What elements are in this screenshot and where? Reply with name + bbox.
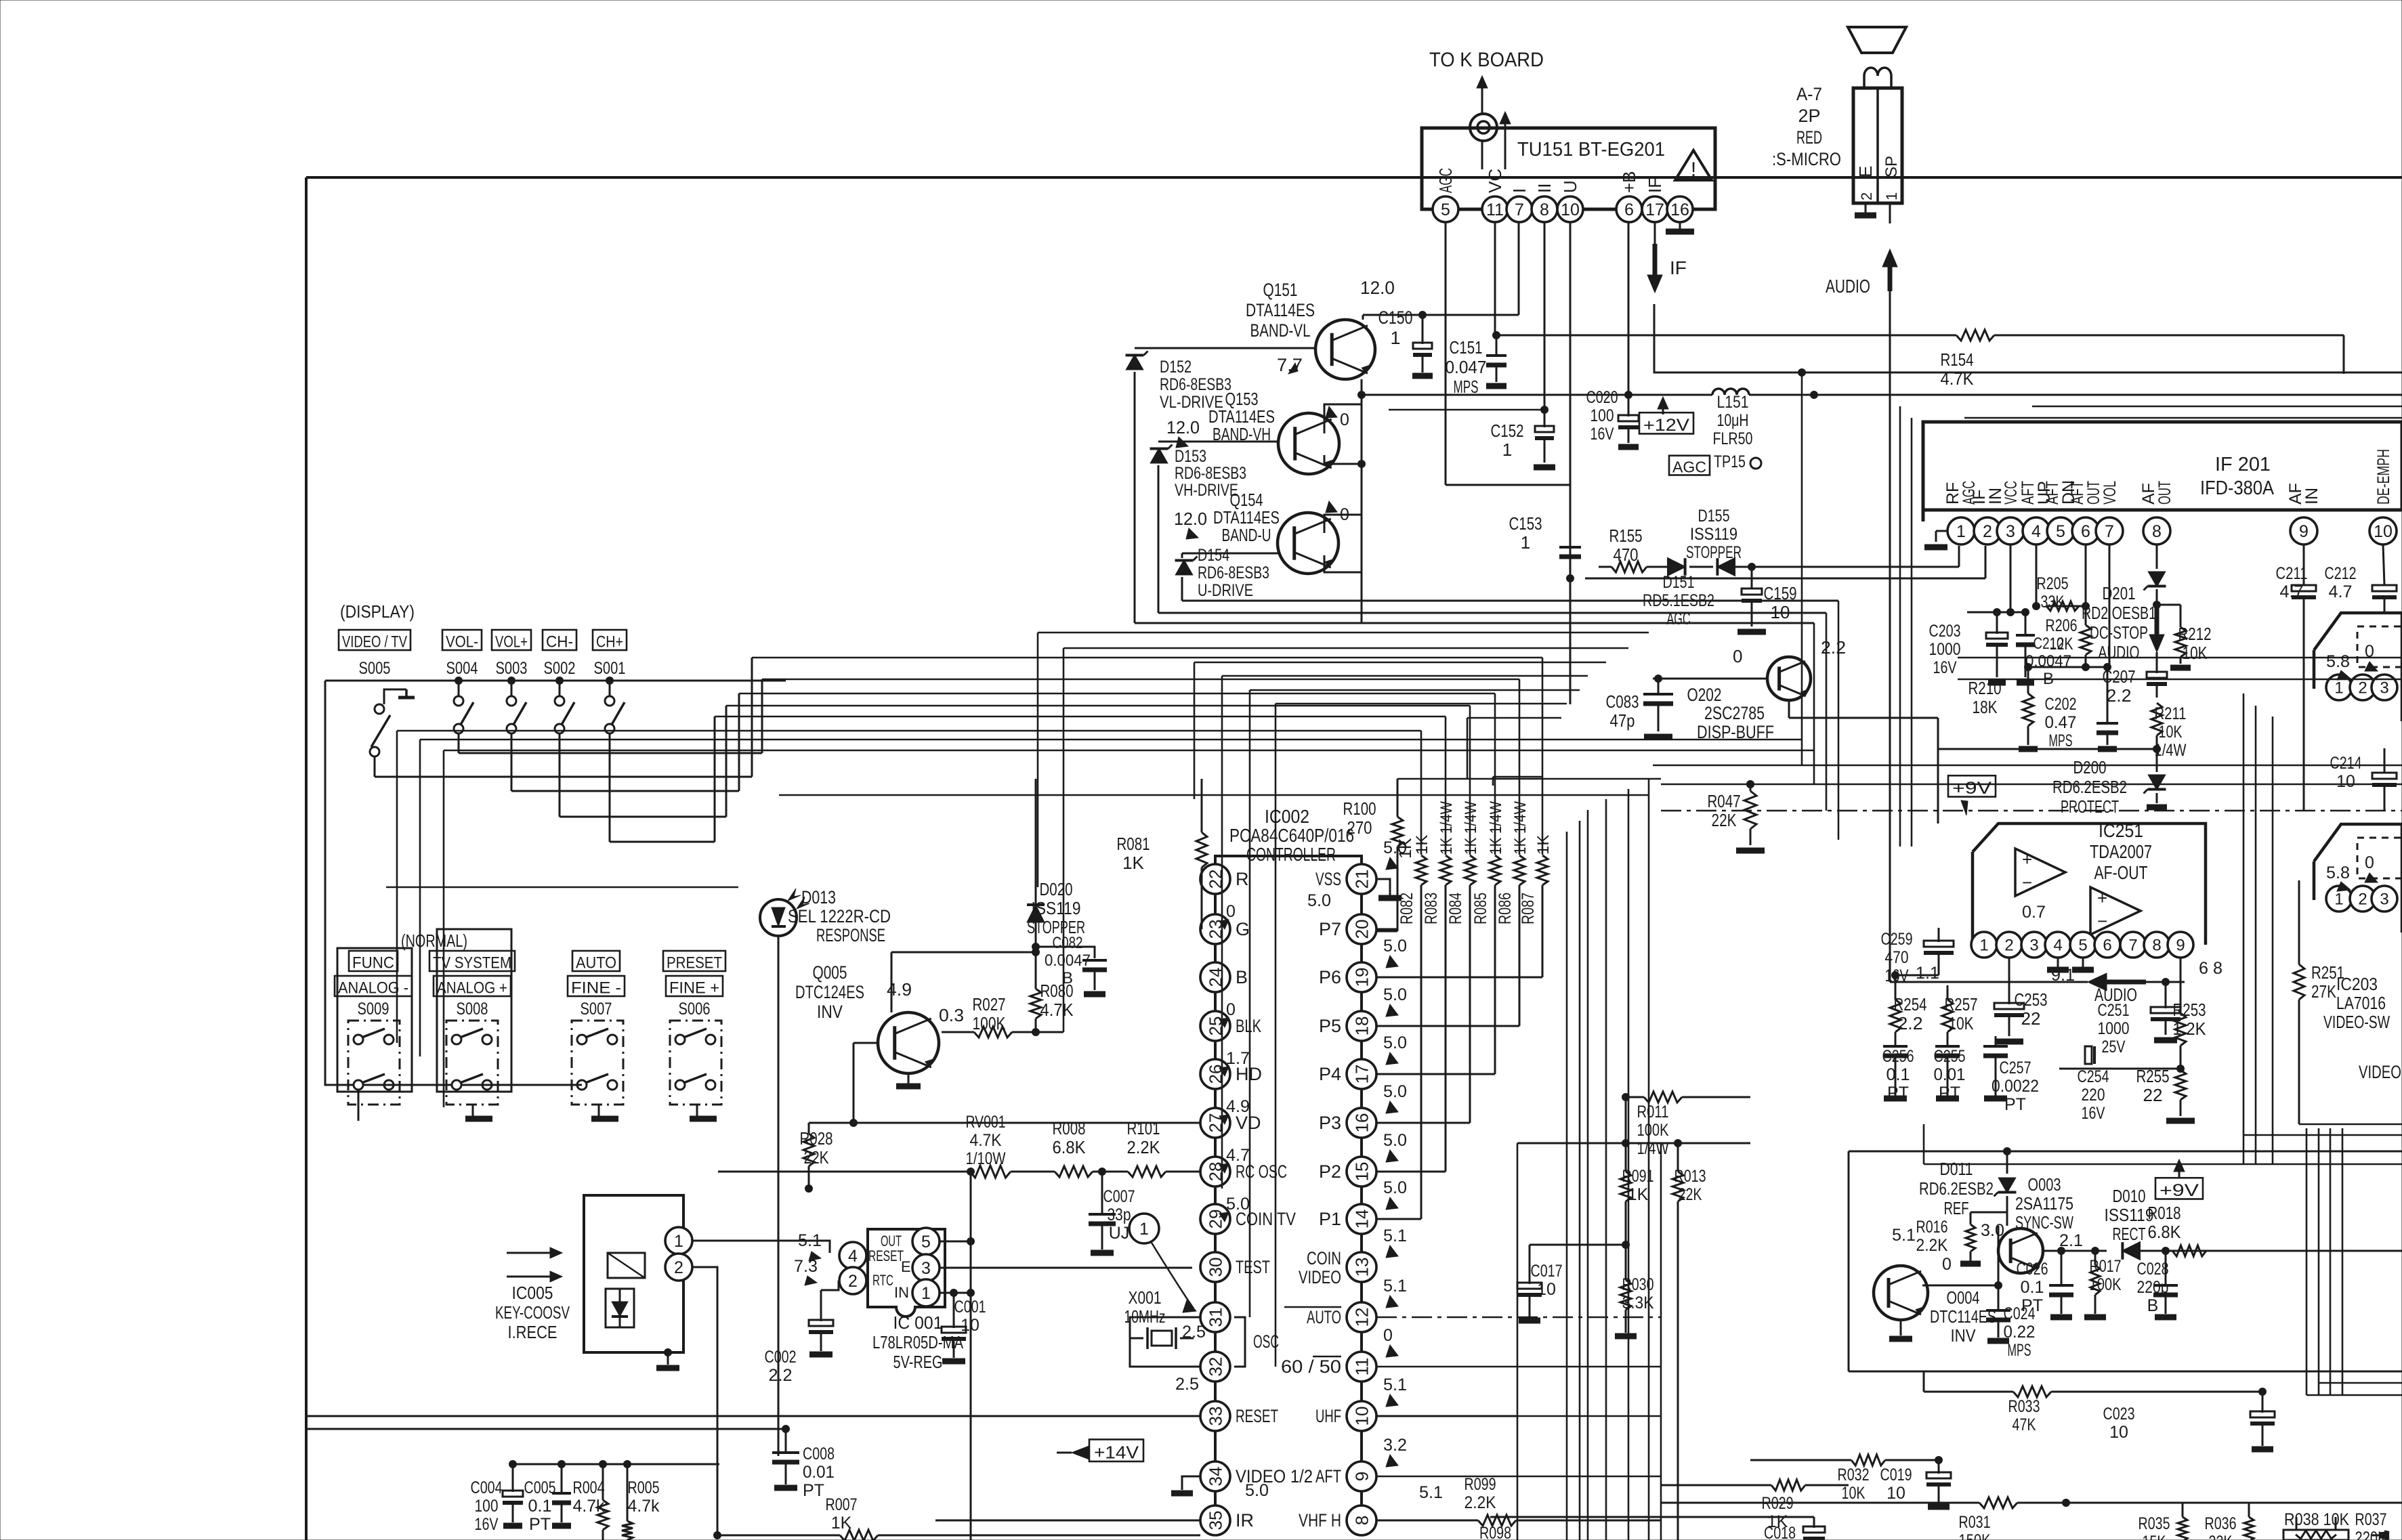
svg-text:O202: O202 bbox=[1687, 685, 1722, 705]
svg-text:VC: VC bbox=[1485, 169, 1505, 193]
svg-text:E: E bbox=[901, 1258, 911, 1275]
svg-text:P6: P6 bbox=[1319, 967, 1341, 987]
svg-text:IN: IN bbox=[894, 1284, 909, 1301]
svg-text:AUTO: AUTO bbox=[576, 954, 616, 972]
svg-text:3.0: 3.0 bbox=[1981, 1221, 2004, 1240]
svg-text:8: 8 bbox=[1351, 1516, 1372, 1525]
svg-text:5.8: 5.8 bbox=[2326, 652, 2350, 671]
svg-text:P1: P1 bbox=[1319, 1209, 1341, 1229]
svg-text:4.7K: 4.7K bbox=[1040, 1000, 1074, 1020]
svg-text:5.1: 5.1 bbox=[1419, 1483, 1443, 1502]
svg-text:MPS: MPS bbox=[2008, 1341, 2031, 1360]
svg-text:RESPONSE: RESPONSE bbox=[816, 925, 885, 945]
svg-text:B: B bbox=[1236, 967, 1248, 987]
svg-text:D011: D011 bbox=[1940, 1159, 1973, 1179]
svg-text:R016: R016 bbox=[1916, 1218, 1948, 1237]
svg-text:10K: 10K bbox=[1949, 1013, 1975, 1033]
svg-text:12.0: 12.0 bbox=[1166, 417, 1200, 437]
svg-text:17: 17 bbox=[1351, 1065, 1372, 1084]
svg-text:8: 8 bbox=[1540, 200, 1549, 219]
svg-text:S009: S009 bbox=[358, 1000, 389, 1019]
svg-text:0: 0 bbox=[1383, 1326, 1393, 1345]
svg-text:D010: D010 bbox=[2113, 1186, 2146, 1206]
svg-text:2.5: 2.5 bbox=[1175, 1375, 1199, 1394]
svg-text:5V-REG: 5V-REG bbox=[893, 1352, 943, 1372]
svg-text:3: 3 bbox=[2006, 522, 2015, 541]
svg-text:RED: RED bbox=[1796, 127, 1822, 148]
svg-text:P2: P2 bbox=[1319, 1161, 1341, 1182]
svg-text:3: 3 bbox=[2380, 891, 2388, 909]
svg-text:1: 1 bbox=[1390, 328, 1400, 348]
svg-text:0.3: 0.3 bbox=[939, 1005, 964, 1025]
svg-text:R084: R084 bbox=[1446, 893, 1465, 924]
svg-text:16: 16 bbox=[1670, 200, 1689, 219]
svg-text:5.1: 5.1 bbox=[1892, 1226, 1916, 1245]
svg-text:5.1: 5.1 bbox=[1383, 1226, 1407, 1245]
svg-text:TP15: TP15 bbox=[1714, 452, 1746, 471]
svg-text:+12V: +12V bbox=[1643, 416, 1689, 435]
svg-text:C150: C150 bbox=[1378, 307, 1413, 328]
svg-text:30: 30 bbox=[1205, 1258, 1225, 1277]
svg-text:0.7: 0.7 bbox=[2022, 903, 2046, 922]
svg-text:R007: R007 bbox=[826, 1495, 858, 1514]
svg-text:3: 3 bbox=[2029, 937, 2038, 955]
svg-text:4.7k: 4.7k bbox=[628, 1497, 660, 1516]
svg-text:16V: 16V bbox=[1933, 658, 1957, 677]
svg-text:KEY-COOSV: KEY-COOSV bbox=[495, 1302, 570, 1323]
svg-text:1K 1/4W: 1K 1/4W bbox=[1437, 801, 1456, 855]
svg-text:5.0: 5.0 bbox=[1307, 891, 1331, 910]
svg-text:VCC: VCC bbox=[2002, 481, 2021, 505]
svg-text:R004: R004 bbox=[573, 1478, 605, 1497]
svg-text:10μH: 10μH bbox=[1717, 411, 1749, 430]
svg-text:Q151: Q151 bbox=[1263, 280, 1298, 300]
svg-text:R080: R080 bbox=[1040, 981, 1074, 1001]
svg-text:AGC: AGC bbox=[1435, 168, 1456, 193]
svg-text:1: 1 bbox=[2334, 891, 2343, 909]
svg-text:C210: C210 bbox=[2034, 635, 2064, 653]
svg-text:25V: 25V bbox=[2102, 1038, 2126, 1056]
svg-text:13: 13 bbox=[1351, 1258, 1372, 1277]
svg-text:2SC2785: 2SC2785 bbox=[1704, 703, 1765, 723]
svg-text:1: 1 bbox=[1883, 192, 1900, 200]
svg-text:TV SYSTEM: TV SYSTEM bbox=[433, 954, 511, 972]
svg-text:C212: C212 bbox=[2325, 564, 2357, 583]
svg-text:C159: C159 bbox=[1764, 583, 1797, 603]
svg-text:SEL 1222R-CD: SEL 1222R-CD bbox=[788, 906, 891, 926]
svg-text:100: 100 bbox=[1590, 406, 1614, 425]
svg-text:C028: C028 bbox=[2137, 1260, 2169, 1279]
svg-text:D154: D154 bbox=[1198, 546, 1229, 565]
svg-text:S002: S002 bbox=[544, 659, 576, 678]
svg-text:INV: INV bbox=[817, 1002, 843, 1022]
svg-text:2.2: 2.2 bbox=[1821, 637, 1846, 658]
svg-text:P7: P7 bbox=[1319, 919, 1341, 939]
svg-text:8: 8 bbox=[2152, 522, 2162, 541]
svg-text:VSS: VSS bbox=[1315, 869, 1341, 889]
svg-text:L78LR05D-MA: L78LR05D-MA bbox=[872, 1332, 964, 1352]
svg-text:C211: C211 bbox=[2276, 564, 2308, 583]
svg-text:C151: C151 bbox=[1450, 337, 1483, 358]
svg-text:AUDIO: AUDIO bbox=[1826, 276, 1870, 297]
svg-text:2: 2 bbox=[2358, 679, 2367, 698]
svg-text:O003: O003 bbox=[2028, 1174, 2061, 1195]
svg-text:2.2: 2.2 bbox=[769, 1366, 793, 1385]
svg-text:5.0: 5.0 bbox=[1383, 1082, 1407, 1101]
svg-text:R083: R083 bbox=[1422, 893, 1441, 924]
svg-text:1K: 1K bbox=[1413, 835, 1431, 855]
svg-text:VIDEO / TV: VIDEO / TV bbox=[342, 633, 407, 651]
svg-text:C020: C020 bbox=[1586, 388, 1618, 407]
svg-text:FLR50: FLR50 bbox=[1713, 429, 1753, 448]
svg-text:2: 2 bbox=[1858, 192, 1875, 200]
svg-text:Q005: Q005 bbox=[813, 962, 847, 983]
svg-text:60 / 50: 60 / 50 bbox=[1281, 1356, 1341, 1377]
svg-text:!: ! bbox=[1691, 158, 1696, 181]
svg-text:VOL+: VOL+ bbox=[495, 633, 528, 651]
svg-text:5: 5 bbox=[2078, 937, 2087, 955]
svg-text:TEST: TEST bbox=[1236, 1257, 1270, 1277]
svg-text:0.1: 0.1 bbox=[528, 1497, 552, 1516]
svg-text:22: 22 bbox=[2021, 1008, 2041, 1029]
svg-text:0: 0 bbox=[1340, 410, 1349, 429]
svg-text:C017: C017 bbox=[1531, 1262, 1563, 1281]
svg-text:L151: L151 bbox=[1717, 393, 1749, 412]
svg-text:S001: S001 bbox=[594, 659, 626, 678]
svg-text:DC-STOP: DC-STOP bbox=[2090, 622, 2148, 643]
svg-text:C082: C082 bbox=[1053, 934, 1083, 952]
svg-text:R101: R101 bbox=[1127, 1118, 1160, 1138]
svg-text:5.0: 5.0 bbox=[1383, 1033, 1407, 1052]
svg-text:C251: C251 bbox=[2098, 1001, 2130, 1020]
svg-text:1.1: 1.1 bbox=[1916, 964, 1939, 983]
svg-text:R087: R087 bbox=[1519, 893, 1538, 924]
svg-text:C203: C203 bbox=[1929, 622, 1961, 641]
svg-text:C259: C259 bbox=[1881, 930, 1913, 949]
svg-text:AUDIO: AUDIO bbox=[2099, 642, 2140, 662]
svg-text:VIDEO-SW: VIDEO-SW bbox=[2323, 1012, 2390, 1032]
svg-text:C254: C254 bbox=[2078, 1067, 2109, 1086]
svg-text:10: 10 bbox=[1887, 1484, 1905, 1503]
svg-text:C023: C023 bbox=[2103, 1405, 2135, 1424]
svg-text:4.9: 4.9 bbox=[1226, 1097, 1250, 1116]
svg-text:5: 5 bbox=[1441, 200, 1450, 219]
svg-text:0.1: 0.1 bbox=[2021, 1278, 2044, 1297]
svg-text:U-DRIVE: U-DRIVE bbox=[1198, 581, 1253, 600]
svg-text:R211: R211 bbox=[2155, 704, 2187, 723]
svg-text:IFD-380A: IFD-380A bbox=[2200, 477, 2275, 499]
svg-text:100: 100 bbox=[475, 1497, 499, 1516]
svg-text:PT: PT bbox=[529, 1515, 551, 1534]
svg-text:R081: R081 bbox=[1117, 834, 1150, 854]
svg-text:47p: 47p bbox=[1610, 710, 1635, 731]
svg-text:D020: D020 bbox=[1040, 879, 1073, 899]
svg-text:7.3: 7.3 bbox=[794, 1257, 818, 1276]
svg-text:22: 22 bbox=[2143, 1085, 2163, 1105]
svg-text:2: 2 bbox=[848, 1272, 858, 1291]
svg-text:220: 220 bbox=[2082, 1086, 2105, 1105]
svg-text:R038 10K: R038 10K bbox=[2284, 1510, 2349, 1529]
svg-text:DTA114ES: DTA114ES bbox=[1246, 300, 1315, 320]
svg-text:R028: R028 bbox=[800, 1128, 833, 1149]
svg-text:6: 6 bbox=[2103, 937, 2111, 955]
svg-text:IN: IN bbox=[2302, 488, 2321, 505]
svg-text:100K: 100K bbox=[1637, 1121, 1669, 1140]
svg-text:4: 4 bbox=[2053, 937, 2062, 955]
svg-text:C018: C018 bbox=[1764, 1524, 1796, 1540]
svg-text:ISS119: ISS119 bbox=[2105, 1205, 2154, 1225]
svg-text:15: 15 bbox=[1351, 1162, 1372, 1182]
svg-text:U: U bbox=[1560, 180, 1580, 193]
svg-text:C005: C005 bbox=[524, 1478, 556, 1497]
svg-text:4.7: 4.7 bbox=[1226, 1146, 1250, 1165]
svg-text:2: 2 bbox=[674, 1258, 683, 1277]
svg-text:470: 470 bbox=[1885, 948, 1909, 967]
svg-text:AF-OUT: AF-OUT bbox=[2094, 862, 2148, 883]
svg-text:IF: IF bbox=[1645, 177, 1665, 193]
svg-text:RD6-8ESB3: RD6-8ESB3 bbox=[1175, 464, 1246, 483]
svg-text:1: 1 bbox=[674, 1232, 683, 1251]
svg-text:R253: R253 bbox=[2173, 1000, 2206, 1020]
svg-text:4.7: 4.7 bbox=[2329, 582, 2353, 601]
svg-text:+9V: +9V bbox=[2159, 1181, 2199, 1200]
svg-text:AUTO: AUTO bbox=[1307, 1307, 1341, 1327]
svg-text:G: G bbox=[1236, 919, 1250, 939]
svg-text:1K: 1K bbox=[1534, 835, 1553, 855]
svg-text:4.7K: 4.7K bbox=[1941, 368, 1975, 389]
svg-text:RD6.2ESB2: RD6.2ESB2 bbox=[2052, 777, 2127, 797]
svg-text:IC203: IC203 bbox=[2336, 974, 2378, 994]
svg-text:RESET: RESET bbox=[1236, 1406, 1278, 1426]
svg-text:9: 9 bbox=[2299, 522, 2309, 541]
svg-text:R205: R205 bbox=[2037, 574, 2069, 593]
svg-text:C214: C214 bbox=[2330, 754, 2362, 773]
svg-text:R037: R037 bbox=[2355, 1510, 2387, 1529]
svg-text:D155: D155 bbox=[1698, 507, 1730, 526]
svg-text:22K: 22K bbox=[1712, 810, 1737, 830]
svg-text:1.7: 1.7 bbox=[1226, 1049, 1250, 1068]
svg-text:0: 0 bbox=[1733, 646, 1742, 666]
svg-text:P5: P5 bbox=[1319, 1016, 1341, 1036]
svg-text:IC005: IC005 bbox=[512, 1283, 553, 1303]
svg-text:C202: C202 bbox=[2045, 695, 2077, 714]
svg-text:STOPPER: STOPPER bbox=[1686, 543, 1742, 562]
svg-text:CH+: CH+ bbox=[596, 633, 623, 651]
svg-text:C019: C019 bbox=[1880, 1466, 1912, 1484]
svg-text:10K: 10K bbox=[2183, 643, 2208, 663]
svg-text:R008: R008 bbox=[1053, 1118, 1086, 1138]
svg-text:0.01: 0.01 bbox=[1934, 1065, 1966, 1084]
svg-text:R011: R011 bbox=[1637, 1103, 1669, 1121]
svg-text:CH-: CH- bbox=[546, 633, 573, 651]
svg-text:FUNC: FUNC bbox=[352, 954, 394, 972]
svg-text:D151: D151 bbox=[1663, 573, 1695, 592]
svg-text:AGC: AGC bbox=[1667, 609, 1691, 628]
svg-text:5.0: 5.0 bbox=[1383, 937, 1407, 956]
svg-text:+B: +B bbox=[1619, 171, 1639, 193]
svg-text:D152: D152 bbox=[1160, 358, 1192, 377]
svg-text:A-7: A-7 bbox=[1796, 84, 1822, 104]
svg-text:5.0: 5.0 bbox=[1245, 1481, 1269, 1500]
svg-text:4: 4 bbox=[2031, 522, 2041, 541]
svg-text:RV001: RV001 bbox=[966, 1113, 1006, 1132]
svg-text:P4: P4 bbox=[1319, 1064, 1341, 1084]
svg-text:10: 10 bbox=[1561, 200, 1580, 219]
svg-text:7: 7 bbox=[1515, 200, 1524, 219]
svg-text:RD6.2ESB2: RD6.2ESB2 bbox=[1919, 1178, 1994, 1199]
svg-text:UHF: UHF bbox=[1315, 1406, 1341, 1426]
svg-text:2P: 2P bbox=[1798, 106, 1820, 126]
svg-text:−: − bbox=[2097, 911, 2107, 931]
svg-text:LA7016: LA7016 bbox=[2336, 993, 2386, 1013]
svg-text:R086: R086 bbox=[1496, 893, 1515, 924]
svg-text:C001: C001 bbox=[954, 1298, 986, 1317]
svg-text:0.47: 0.47 bbox=[2045, 713, 2077, 732]
svg-text:R031: R031 bbox=[1959, 1513, 1991, 1532]
svg-text:R099: R099 bbox=[1465, 1475, 1496, 1494]
svg-text:ISS119: ISS119 bbox=[1690, 525, 1737, 544]
svg-text:+: + bbox=[2022, 849, 2032, 870]
svg-text:0: 0 bbox=[2365, 853, 2374, 872]
svg-text:I: I bbox=[1509, 188, 1530, 193]
svg-text:1K 1/4W: 1K 1/4W bbox=[1462, 801, 1480, 855]
svg-text:REF: REF bbox=[1944, 1198, 1969, 1218]
svg-text:2.2K: 2.2K bbox=[1916, 1236, 1948, 1255]
svg-text:RESET: RESET bbox=[868, 1247, 904, 1264]
svg-text:R033: R033 bbox=[2008, 1397, 2040, 1416]
svg-text:10K: 10K bbox=[1842, 1484, 1866, 1503]
svg-text:0.0022: 0.0022 bbox=[1992, 1077, 2039, 1096]
svg-text:R100: R100 bbox=[1343, 798, 1376, 819]
svg-text:(DISPLAY): (DISPLAY) bbox=[340, 601, 415, 622]
svg-text:FINE -: FINE - bbox=[571, 979, 621, 998]
svg-text::S-MICRO: :S-MICRO bbox=[1772, 149, 1841, 169]
svg-text:12: 12 bbox=[1351, 1308, 1372, 1327]
svg-text:0.047: 0.047 bbox=[1446, 357, 1487, 377]
svg-text:2: 2 bbox=[2358, 891, 2367, 909]
svg-text:R212: R212 bbox=[2178, 624, 2212, 644]
svg-text:R098: R098 bbox=[1479, 1524, 1511, 1540]
svg-text:X001: X001 bbox=[1129, 1287, 1162, 1308]
svg-text:4.7K: 4.7K bbox=[970, 1131, 1002, 1150]
svg-text:S003: S003 bbox=[496, 659, 528, 678]
svg-text:C253: C253 bbox=[2015, 989, 2048, 1010]
svg-text:DTC124ES: DTC124ES bbox=[795, 982, 864, 1002]
svg-text:VIDEO: VIDEO bbox=[2359, 1062, 2401, 1082]
svg-text:5.1: 5.1 bbox=[1383, 1375, 1407, 1394]
svg-text:35: 35 bbox=[1205, 1511, 1225, 1531]
svg-text:3.2: 3.2 bbox=[1383, 1436, 1407, 1455]
svg-text:IF 201: IF 201 bbox=[2215, 454, 2271, 475]
svg-text:1K 1/4W: 1K 1/4W bbox=[1487, 801, 1505, 855]
svg-text:PROTECT: PROTECT bbox=[2061, 796, 2119, 817]
svg-text:RD6-8ESB3: RD6-8ESB3 bbox=[1160, 375, 1231, 394]
svg-text:TDA2007: TDA2007 bbox=[2090, 841, 2152, 862]
svg-text:S008: S008 bbox=[457, 1000, 488, 1019]
svg-text:33: 33 bbox=[1205, 1407, 1225, 1426]
svg-text:1000: 1000 bbox=[1929, 640, 1961, 659]
svg-text:−: − bbox=[2022, 872, 2032, 893]
svg-text:15K: 15K bbox=[2143, 1533, 2166, 1540]
svg-text:R047: R047 bbox=[1708, 791, 1741, 811]
svg-text:+9V: +9V bbox=[1952, 779, 1992, 798]
svg-text:0: 0 bbox=[1226, 1000, 1236, 1019]
svg-text:PT: PT bbox=[803, 1481, 824, 1500]
svg-text:R: R bbox=[1236, 869, 1249, 889]
svg-text:16V: 16V bbox=[2082, 1104, 2105, 1123]
svg-text:FINE +: FINE + bbox=[669, 979, 719, 998]
svg-text:R005: R005 bbox=[628, 1478, 660, 1497]
svg-text:RD2 OESB1: RD2 OESB1 bbox=[2082, 603, 2156, 623]
svg-text:12.0: 12.0 bbox=[1174, 509, 1207, 529]
svg-text:R018: R018 bbox=[2148, 1203, 2181, 1223]
svg-text:1: 1 bbox=[1502, 440, 1512, 460]
svg-text:RD6-8ESB3: RD6-8ESB3 bbox=[1198, 563, 1269, 582]
svg-text:1: 1 bbox=[1521, 532, 1530, 553]
svg-text:0.1: 0.1 bbox=[1887, 1065, 1910, 1084]
svg-text:INV: INV bbox=[1951, 1325, 1977, 1346]
svg-text:CONTROLLER: CONTROLLER bbox=[1246, 844, 1336, 865]
svg-text:5: 5 bbox=[2056, 522, 2065, 541]
svg-text:1: 1 bbox=[1979, 937, 1988, 955]
svg-text:R210: R210 bbox=[1968, 678, 2002, 698]
svg-text:RD5.1ESB2: RD5.1ESB2 bbox=[1643, 591, 1714, 610]
svg-text:D013: D013 bbox=[801, 887, 836, 907]
svg-text:D200: D200 bbox=[2073, 757, 2107, 777]
svg-text:11: 11 bbox=[1351, 1358, 1372, 1376]
svg-text:2: 2 bbox=[2004, 937, 2013, 955]
svg-text:IR: IR bbox=[1236, 1510, 1254, 1531]
svg-text:PCA84C640P/016: PCA84C640P/016 bbox=[1229, 825, 1354, 846]
svg-text:B: B bbox=[2147, 1296, 2159, 1315]
svg-text:RECT: RECT bbox=[2113, 1224, 2146, 1244]
svg-text:2.2K: 2.2K bbox=[1465, 1493, 1496, 1512]
svg-text:ANALOG -: ANALOG - bbox=[338, 979, 408, 998]
svg-text:S007: S007 bbox=[581, 1000, 612, 1019]
svg-text:21: 21 bbox=[1351, 870, 1372, 889]
svg-text:C002: C002 bbox=[765, 1348, 797, 1367]
svg-text:I.RECE: I.RECE bbox=[508, 1322, 557, 1342]
svg-text:IC002: IC002 bbox=[1265, 806, 1309, 827]
svg-text:IC251: IC251 bbox=[2099, 820, 2143, 841]
svg-text:BAND-U: BAND-U bbox=[1222, 525, 1271, 545]
svg-text:470: 470 bbox=[1614, 544, 1639, 565]
svg-text:E: E bbox=[1855, 166, 1876, 177]
svg-text:MPS: MPS bbox=[2049, 731, 2073, 750]
svg-text:33K: 33K bbox=[2041, 593, 2065, 612]
svg-text:VOL: VOL bbox=[2101, 481, 2120, 505]
svg-text:OUT: OUT bbox=[2155, 481, 2174, 505]
svg-text:47K: 47K bbox=[2013, 1415, 2036, 1434]
svg-text:3: 3 bbox=[921, 1259, 931, 1278]
svg-text:6.8K: 6.8K bbox=[2148, 1222, 2182, 1242]
svg-text:R255: R255 bbox=[2136, 1066, 2170, 1086]
svg-text:16: 16 bbox=[1351, 1113, 1372, 1133]
svg-text:10: 10 bbox=[2336, 772, 2355, 791]
svg-text:11: 11 bbox=[1486, 200, 1504, 219]
svg-text:17: 17 bbox=[1645, 200, 1664, 219]
svg-text:2.5: 2.5 bbox=[1182, 1323, 1206, 1342]
svg-text:COIN: COIN bbox=[1307, 1248, 1341, 1268]
svg-text:27K: 27K bbox=[2311, 981, 2337, 1002]
svg-text:RTC: RTC bbox=[872, 1272, 893, 1289]
svg-text:1K 1/4W: 1K 1/4W bbox=[1511, 801, 1530, 855]
svg-text:O004: O004 bbox=[1947, 1287, 1980, 1308]
svg-text:R082: R082 bbox=[1397, 893, 1416, 924]
svg-text:SP: SP bbox=[1882, 156, 1901, 177]
svg-text:4: 4 bbox=[848, 1247, 858, 1266]
svg-text:14: 14 bbox=[1351, 1210, 1372, 1229]
